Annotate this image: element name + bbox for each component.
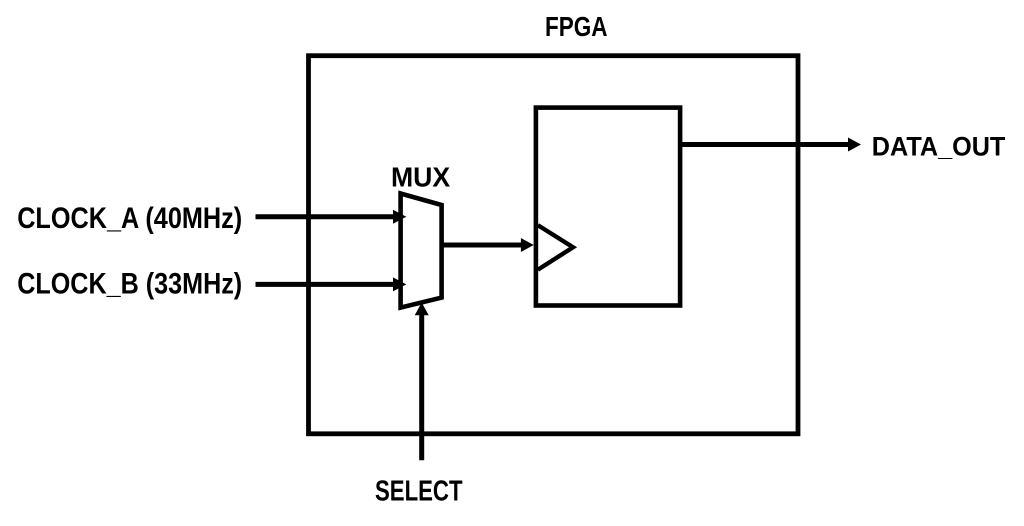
wire CLOCK_B to mux [256, 282, 395, 287]
flip-flop block U1 [536, 108, 680, 306]
svg-text:CLOCK_B (33MHz): CLOCK_B (33MHz) [17, 267, 242, 300]
svg-text:SELECT: SELECT [375, 475, 463, 507]
wire DATA_OUT [680, 142, 849, 147]
arrowhead CLOCK_A [393, 210, 406, 224]
arrowhead CLOCK_B [393, 277, 406, 291]
svg-text:MUX: MUX [391, 161, 450, 192]
arrowhead DATA_OUT [848, 138, 861, 152]
wire CLOCK_A to mux [256, 214, 395, 219]
wire SELECT to mux [419, 314, 424, 460]
svg-text:FPGA: FPGA [545, 11, 608, 42]
mux MUX1 trapezoid [401, 194, 442, 308]
clock input triangle of U1 [538, 225, 573, 270]
wire mux output to U1 clock [442, 243, 522, 248]
FPGA boundary rectangle [309, 56, 799, 434]
arrowhead mux output [521, 238, 534, 252]
arrowhead SELECT [415, 303, 429, 316]
svg-text:DATA_OUT: DATA_OUT [872, 131, 1006, 161]
svg-text:CLOCK_A (40MHz): CLOCK_A (40MHz) [17, 202, 242, 235]
